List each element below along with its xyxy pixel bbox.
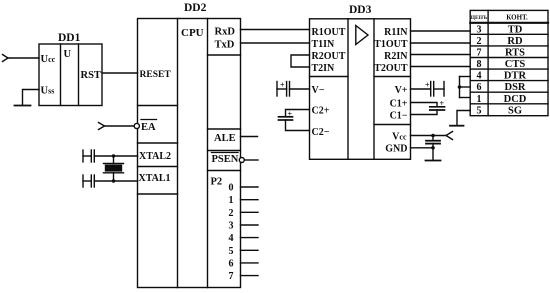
- svg-text:6: 6: [477, 82, 482, 93]
- svg-text:T2OUT: T2OUT: [374, 63, 408, 74]
- wire R2IN to RTS: [411, 54, 471, 56]
- bracket tying DTR DSR DCD: [460, 77, 471, 98]
- capacitor at XTAL1: [83, 175, 114, 187]
- svg-text:R2OUT: R2OUT: [312, 51, 346, 62]
- svg-text:T2IN: T2IN: [312, 63, 336, 74]
- svg-text:PSEN: PSEN: [212, 154, 239, 165]
- capacitor at XTAL2: [83, 150, 114, 162]
- wire RST to RESET: [102, 72, 138, 74]
- svg-text:C2+: C2+: [312, 106, 330, 117]
- connector X1 table: [470, 10, 548, 115]
- svg-text:8: 8: [477, 59, 482, 70]
- svg-text:КОНТ.: КОНТ.: [506, 14, 528, 22]
- svg-text:3: 3: [477, 24, 482, 35]
- svg-text:RESET: RESET: [140, 70, 172, 80]
- svg-text:Uss: Uss: [41, 86, 55, 97]
- svg-text:C2−: C2−: [312, 127, 330, 138]
- svg-text:C1−: C1−: [390, 111, 408, 122]
- svg-text:4: 4: [477, 71, 482, 82]
- svg-text:+: +: [280, 81, 285, 90]
- svg-text:RD: RD: [507, 36, 523, 47]
- MCU DD2 block: [138, 19, 241, 288]
- wire Vcc: [411, 135, 447, 137]
- svg-text:DD3: DD3: [349, 4, 372, 16]
- wire XTAL2 node to pin: [114, 155, 138, 157]
- wire loop R2OUT to T2IN: [291, 55, 310, 67]
- junction DSR node: [458, 85, 462, 89]
- svg-text:DD1: DD1: [58, 32, 81, 44]
- svg-text:5: 5: [229, 246, 234, 257]
- ground (DD3): [426, 160, 441, 162]
- wire R1IN to TD: [411, 30, 471, 32]
- svg-text:T1OUT: T1OUT: [374, 39, 408, 50]
- junction Vcc node: [431, 134, 435, 138]
- driver DD3 (RS-232 transceiver): [310, 19, 411, 160]
- svg-text:Ucc: Ucc: [41, 54, 56, 65]
- input arrow at Vcc: [446, 132, 453, 140]
- wire TxD to T1IN: [241, 42, 310, 44]
- svg-text:2: 2: [477, 36, 482, 47]
- junction XTAL2 node: [112, 154, 115, 157]
- junction XTAL1 node: [112, 179, 115, 182]
- svg-text:T1IN: T1IN: [312, 39, 336, 50]
- svg-text:+: +: [440, 99, 445, 108]
- capacitor at C2+/C2-: [279, 109, 310, 130]
- svg-text:R1IN: R1IN: [384, 27, 408, 38]
- svg-text:ALE: ALE: [214, 133, 236, 144]
- svg-text:DD2: DD2: [184, 2, 207, 14]
- ALE pin stub: [241, 136, 258, 138]
- svg-text:2: 2: [229, 208, 234, 219]
- svg-text:RTS: RTS: [505, 48, 525, 59]
- input arrow to EA: [99, 123, 105, 130]
- svg-text:EA: EA: [141, 122, 156, 133]
- wire GND pin to rail: [411, 147, 434, 149]
- driver triangle symbol: [356, 26, 368, 45]
- svg-text:1: 1: [477, 94, 482, 105]
- wire SG to ground: [457, 111, 470, 126]
- input arrow to Ucc: [3, 55, 9, 62]
- svg-text:V−: V−: [312, 85, 325, 96]
- svg-text:SG: SG: [508, 105, 522, 116]
- ground (SG): [450, 125, 464, 127]
- svg-text:GND: GND: [385, 144, 407, 155]
- svg-text:5: 5: [477, 105, 482, 116]
- svg-text:XTAL2: XTAL2: [139, 151, 171, 162]
- svg-text:V+: V+: [395, 85, 408, 96]
- svg-text:0: 0: [229, 183, 234, 194]
- svg-text:TxD: TxD: [215, 40, 235, 51]
- wire T1OUT to RD: [411, 42, 471, 44]
- svg-text:CPU: CPU: [181, 27, 204, 39]
- svg-text:DSR: DSR: [504, 82, 525, 93]
- svg-text:CTS: CTS: [505, 59, 526, 70]
- wire arrow to EA: [105, 125, 135, 127]
- wire Uss to ground: [23, 90, 40, 106]
- svg-text:DCD: DCD: [504, 94, 527, 105]
- ground (DD1 Uss): [15, 105, 31, 107]
- svg-text:P2: P2: [211, 177, 223, 188]
- PSEN inversion bubble: [239, 158, 244, 163]
- svg-text:+: +: [288, 109, 293, 118]
- svg-text:ЦЕПЪ: ЦЕПЪ: [471, 15, 487, 21]
- decoupling capacitor Vcc-GND: [426, 136, 440, 161]
- wire arrow to Ucc pin: [8, 57, 39, 59]
- svg-text:TD: TD: [508, 24, 523, 35]
- svg-text:R1OUT: R1OUT: [312, 27, 346, 38]
- svg-text:+: +: [425, 81, 430, 90]
- svg-text:7: 7: [229, 271, 234, 282]
- svg-text:U: U: [64, 49, 72, 60]
- capacitor at C1+/C1-: [411, 99, 445, 115]
- wire XTAL1 node to pin: [114, 180, 138, 182]
- svg-text:Vcc: Vcc: [392, 132, 407, 143]
- svg-text:RxD: RxD: [215, 27, 236, 38]
- wire RxD to R1OUT: [241, 29, 310, 31]
- capacitor at V+: [411, 81, 445, 97]
- svg-text:7: 7: [477, 48, 482, 59]
- EA inversion bubble: [134, 123, 139, 128]
- svg-text:XTAL1: XTAL1: [139, 173, 171, 184]
- IC DD1 power-supervisor block: [39, 44, 102, 106]
- capacitor at V-: [277, 81, 310, 97]
- svg-text:6: 6: [229, 258, 234, 269]
- svg-text:DTR: DTR: [504, 71, 527, 82]
- svg-text:1: 1: [229, 195, 234, 206]
- svg-text:RST: RST: [81, 70, 101, 81]
- svg-text:C1+: C1+: [390, 99, 408, 110]
- junction GND node: [431, 146, 435, 150]
- crystal resonator: [104, 156, 124, 181]
- wire T2OUT to CTS: [411, 66, 471, 68]
- svg-text:3: 3: [229, 221, 234, 232]
- svg-text:R2IN: R2IN: [384, 51, 408, 62]
- PSEN pin stub: [244, 159, 258, 161]
- svg-text:4: 4: [229, 233, 234, 244]
